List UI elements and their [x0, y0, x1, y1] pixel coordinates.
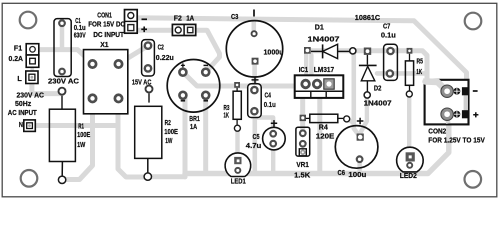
- fuse F2: [172, 24, 195, 35]
- svg-text:R2: R2: [165, 118, 171, 127]
- label F2 designator: [174, 14, 182, 23]
- label CON1 designator: [97, 11, 112, 20]
- svg-text:100E: 100E: [164, 127, 178, 136]
- svg-text:C2: C2: [158, 43, 164, 52]
- label CON1 DC input: [93, 30, 124, 39]
- wire X1 TR to C2: [119, 46, 149, 64]
- svg-text:F2: F2: [174, 14, 182, 23]
- svg-text:630V: 630V: [74, 31, 86, 40]
- label C6 value 100u: [348, 170, 367, 179]
- svg-text:1A: 1A: [190, 122, 198, 131]
- wire C6 bottom stub: [357, 160, 361, 174]
- svg-text:DC INPUT: DC INPUT: [93, 30, 124, 39]
- wire fuse F1 to X1 primary: [36, 50, 93, 64]
- label IC1 designator: [299, 65, 309, 74]
- label F1 rating 0.2A: [9, 54, 24, 63]
- mounting hole bottom-right: [465, 171, 482, 188]
- label C4 value 0.1u: [264, 100, 276, 109]
- wire C7 bottom row to CON2 entry: [377, 71, 427, 76]
- label C2 designator: [158, 43, 164, 52]
- svg-text:100u: 100u: [348, 170, 367, 179]
- wire X1 BR to R2: [118, 98, 144, 177]
- svg-text:100E: 100E: [77, 130, 90, 139]
- wire CON1- to CON2 rail (top): [131, 16, 467, 87]
- svg-text:230V AC: 230V AC: [48, 76, 80, 85]
- label R4 value 120E: [316, 132, 335, 141]
- label N terminal: [19, 120, 23, 129]
- connector CON2: [425, 80, 469, 125]
- label board id 10861C: [355, 13, 381, 22]
- label R3 value 1K: [224, 110, 230, 119]
- svg-text:R1: R1: [78, 121, 84, 130]
- capacitor C2: [142, 40, 155, 76]
- svg-text:X1: X1: [100, 40, 108, 49]
- label plus CON2: [473, 112, 478, 117]
- svg-text:LM317: LM317: [314, 65, 335, 74]
- capacitor C1: [54, 19, 71, 77]
- potentiometer VR1: [296, 127, 310, 156]
- label plus CON1: [141, 27, 147, 33]
- LED LED1: [225, 153, 251, 177]
- capacitor C6: [335, 118, 378, 168]
- label VR1 value 1.5K: [294, 171, 311, 180]
- label CON2 designator: [428, 127, 446, 136]
- mounting hole top-right: [465, 13, 482, 30]
- svg-text:N: N: [19, 120, 23, 129]
- label 15V AC: [132, 77, 152, 86]
- svg-text:AC INPUT: AC INPUT: [8, 108, 37, 117]
- svg-text:1N4007: 1N4007: [308, 35, 340, 44]
- label D2 designator: [374, 84, 382, 93]
- svg-text:D2: D2: [374, 84, 382, 93]
- wire D1 pad down to IC1: [306, 53, 311, 77]
- svg-text:0.1u: 0.1u: [381, 31, 396, 40]
- transformer X1: [84, 50, 128, 114]
- label CON1 for 15V DC: [88, 19, 125, 28]
- resistor R5: [405, 48, 413, 97]
- wire F1 to L pad stub: [30, 67, 34, 73]
- wire C3 positive column: [252, 21, 257, 89]
- label IC1 part LM317: [314, 65, 335, 74]
- label R3 designator: [224, 103, 230, 112]
- svg-text:F1: F1: [14, 44, 22, 53]
- svg-text:IC1: IC1: [299, 65, 309, 74]
- label R5 value 1K: [416, 67, 422, 76]
- bridge rectifier BR1: [167, 60, 220, 113]
- LED LED2: [397, 147, 424, 172]
- resistor R1: [49, 109, 75, 183]
- diode D2: [359, 48, 377, 99]
- label C6 designator: [338, 168, 346, 177]
- svg-text:VR1: VR1: [296, 160, 309, 169]
- svg-text:LED2: LED2: [400, 171, 417, 180]
- label CON2 range: [428, 136, 485, 145]
- label C5 value 4.7u: [246, 141, 262, 150]
- svg-text:1A: 1A: [186, 14, 195, 23]
- pad N (AC neutral): [24, 120, 36, 131]
- svg-text:50Hz: 50Hz: [15, 99, 32, 108]
- label C1 value 0.1u: [74, 23, 86, 32]
- label C3 value 1000u: [264, 47, 284, 56]
- label 230V AC input: [17, 91, 45, 100]
- label C2 value 0.22u: [156, 53, 174, 62]
- label 50Hz: [15, 99, 32, 108]
- svg-text:L: L: [17, 74, 22, 83]
- label C3 designator: [231, 12, 238, 21]
- svg-text:C5: C5: [253, 132, 260, 141]
- label minus CON2: [473, 90, 478, 92]
- label L terminal: [17, 74, 22, 83]
- svg-text:0.22u: 0.22u: [156, 53, 174, 62]
- svg-text:1W: 1W: [165, 136, 172, 145]
- wire C1 top riser: [60, 26, 65, 48]
- wire BR1 BR riser to bus: [203, 95, 208, 173]
- svg-text:1N4007: 1N4007: [364, 99, 392, 108]
- label minus CON1: [142, 18, 148, 20]
- label R1 value 100E: [77, 130, 90, 139]
- label R1 power 1W: [77, 140, 85, 149]
- node 15VACpad: [146, 86, 153, 103]
- wire bottom ground bus: [185, 125, 449, 174]
- wire BR1 BL riser: [183, 95, 188, 177]
- label 230V AC under C1: [48, 76, 80, 85]
- capacitor C5: [263, 120, 286, 150]
- svg-text:C7: C7: [383, 22, 390, 31]
- svg-text:10861C: 10861C: [355, 13, 381, 22]
- svg-text:R5: R5: [417, 56, 424, 65]
- diode D1: [304, 44, 356, 58]
- label D1 value 1N4007: [308, 35, 340, 44]
- label R1 designator: [78, 121, 84, 130]
- label R2 designator: [165, 118, 171, 127]
- svg-text:FOR 15V DC: FOR 15V DC: [88, 19, 125, 28]
- resistor R3: [233, 82, 241, 131]
- svg-text:C3: C3: [231, 12, 238, 21]
- wire N pad to X1 return: [36, 123, 118, 128]
- capacitor C4: [248, 76, 262, 117]
- wire IC1 down to bottom bus: [317, 97, 322, 172]
- resistor R2: [135, 106, 162, 180]
- svg-text:1000u: 1000u: [264, 47, 284, 56]
- svg-text:1K: 1K: [224, 110, 230, 119]
- connector CON1: [125, 10, 138, 34]
- wire D2 bottom to C6: [361, 97, 367, 132]
- label AC INPUT: [8, 108, 37, 117]
- wire CON1+ to F2 to BR1: [131, 30, 220, 72]
- label BR1 rating 1A: [190, 122, 198, 131]
- label F1 designator: [14, 44, 22, 53]
- label R2 power 1W: [165, 136, 172, 145]
- wire C5 bottom riser: [271, 144, 275, 174]
- wire C5 top link: [257, 118, 274, 134]
- label LED1 designator: [231, 177, 246, 186]
- svg-text:1.5K: 1.5K: [294, 171, 311, 180]
- wire D1 right pad down to C6: [354, 51, 360, 137]
- fuse F1: [26, 44, 39, 68]
- svg-text:C6: C6: [338, 168, 346, 177]
- label R5 designator: [417, 56, 424, 65]
- resistor R4: [300, 114, 350, 122]
- pad L (AC live): [26, 71, 38, 84]
- regulator IC1 LM317: [295, 75, 344, 98]
- svg-text:1K: 1K: [416, 67, 422, 76]
- node 230VACpad: [59, 88, 66, 110]
- svg-text:CON2: CON2: [428, 127, 446, 136]
- label VR1 designator: [296, 160, 309, 169]
- svg-text:0.1u: 0.1u: [264, 100, 276, 109]
- svg-text:120E: 120E: [316, 132, 335, 141]
- label D2 value 1N4007: [364, 99, 392, 108]
- wire L pad to 230VAC pad: [32, 83, 60, 94]
- wire BR1+ mid bus to IC1: [183, 72, 295, 86]
- svg-text:1W: 1W: [77, 140, 85, 149]
- wire IC1 ADJ down to R4 and VR1: [300, 96, 305, 134]
- svg-text:LED1: LED1: [231, 177, 246, 186]
- wire X1 BL to R1: [63, 98, 93, 179]
- wire R4 right pad to output rail: [348, 120, 354, 124]
- mounting hole bottom-left: [21, 170, 38, 187]
- svg-text:CON1: CON1: [97, 11, 112, 20]
- wire R2 pad to BR1 AC riser: [151, 174, 185, 179]
- label BR1 designator: [189, 114, 200, 123]
- svg-text:FOR 1.25V TO 15V: FOR 1.25V TO 15V: [428, 136, 485, 145]
- mounting hole top-left: [20, 12, 37, 29]
- svg-text:C4: C4: [265, 90, 272, 99]
- label C1 designator: [75, 16, 81, 25]
- label X1 designator: [100, 40, 108, 49]
- label C1 voltage 630V: [74, 31, 86, 40]
- svg-text:4.7u: 4.7u: [246, 141, 262, 150]
- label R2 value 100E: [164, 127, 178, 136]
- label F2 rating 1A: [186, 14, 195, 23]
- label C7 designator: [383, 22, 390, 31]
- label C5 designator: [253, 132, 260, 141]
- wire R3 bottom to LED1: [235, 129, 239, 161]
- label R4 designator: [319, 123, 329, 132]
- capacitor C7: [384, 44, 398, 80]
- svg-text:0.2A: 0.2A: [9, 54, 24, 63]
- capacitor C3: [226, 10, 282, 78]
- svg-text:R4: R4: [319, 123, 329, 132]
- label D1 designator: [315, 22, 324, 31]
- svg-text:D1: D1: [315, 22, 324, 31]
- label C7 value 0.1u: [381, 31, 396, 40]
- label LED2 designator: [400, 171, 417, 180]
- wire R5 bottom to LED2: [407, 94, 411, 155]
- label C4 designator: [265, 90, 272, 99]
- wire output rail D1-D2-C7-R5 to CON2: [308, 51, 427, 82]
- wire C4 bottom riser to bus: [253, 92, 258, 174]
